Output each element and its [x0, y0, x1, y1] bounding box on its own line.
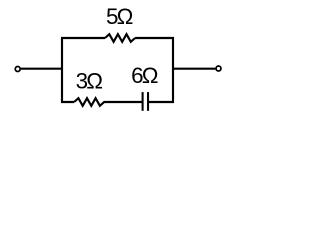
svg-text:5Ω: 5Ω: [106, 4, 133, 29]
svg-text:3Ω: 3Ω: [76, 69, 103, 94]
svg-text:6Ω: 6Ω: [131, 63, 158, 88]
